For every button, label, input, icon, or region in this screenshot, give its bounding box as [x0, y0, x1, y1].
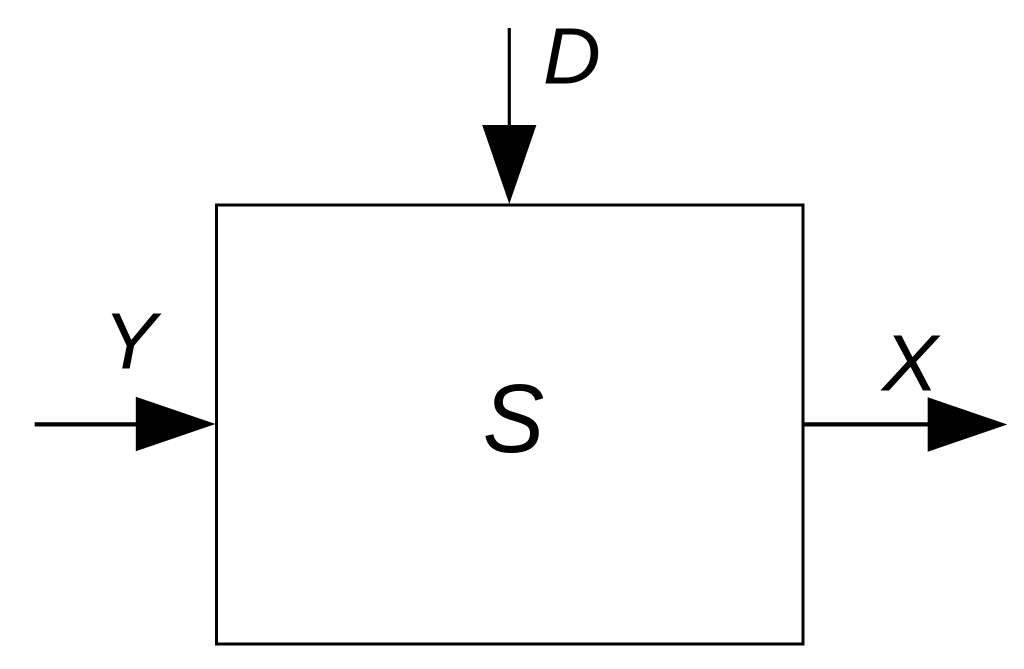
svg-text:D: D [543, 12, 601, 101]
arrowhead X [928, 397, 1008, 452]
wire Y (input shaft) [35, 422, 140, 426]
wire X (output shaft) [803, 422, 930, 426]
arrowhead Y [136, 397, 216, 451]
svg-text:Y: Y [103, 297, 162, 386]
arrowhead D [482, 125, 536, 204]
svg-text:X: X [880, 319, 941, 408]
svg-text:S: S [483, 365, 544, 474]
wire D (vertical shaft) [508, 28, 511, 130]
block S (system box) [217, 205, 804, 644]
